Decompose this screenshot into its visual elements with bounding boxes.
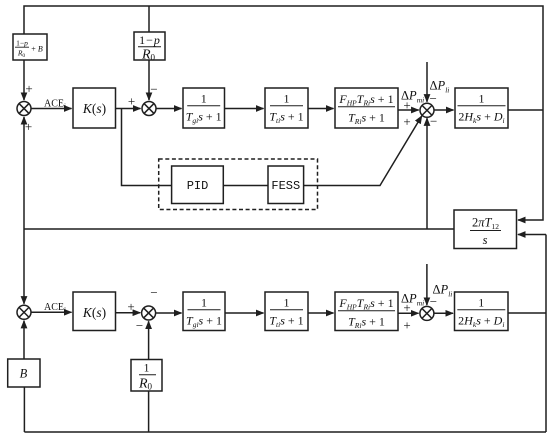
- svg-text:−: −: [136, 318, 143, 333]
- svg-text:+ B: + B: [31, 45, 43, 54]
- svg-text:s: s: [483, 233, 488, 247]
- svg-text:+: +: [127, 299, 134, 314]
- svg-text:PID: PID: [187, 179, 209, 193]
- svg-text:Ttis + 1: Ttis + 1: [269, 110, 303, 126]
- svg-text:FESS: FESS: [271, 179, 300, 193]
- svg-text:2Hks + Di: 2Hks + Di: [458, 314, 504, 330]
- svg-text:B: B: [20, 367, 28, 381]
- svg-text:ACEi: ACEi: [44, 302, 66, 314]
- svg-text:1: 1: [201, 296, 207, 310]
- svg-text:1: 1: [284, 296, 290, 310]
- svg-text:1: 1: [201, 92, 207, 106]
- svg-text:−: −: [150, 285, 157, 300]
- svg-text:1: 1: [479, 92, 485, 106]
- svg-text:+: +: [403, 318, 410, 333]
- svg-text:K(s): K(s): [82, 101, 106, 116]
- svg-text:−: −: [150, 81, 157, 96]
- svg-text:−: −: [430, 113, 437, 128]
- svg-text:TRis + 1: TRis + 1: [348, 315, 385, 331]
- svg-text:Tgis + 1: Tgis + 1: [186, 110, 222, 126]
- svg-text:+: +: [128, 94, 135, 109]
- svg-text:ACEi: ACEi: [44, 99, 66, 111]
- svg-text:+: +: [25, 119, 32, 134]
- svg-text:1: 1: [478, 296, 484, 310]
- svg-text:−: −: [430, 91, 437, 106]
- svg-text:1−p: 1−p: [16, 38, 28, 47]
- svg-text:Tgis + 1: Tgis + 1: [186, 314, 222, 330]
- svg-text:1: 1: [144, 363, 150, 375]
- svg-text:1 − p: 1 − p: [139, 33, 160, 47]
- svg-text:TRis + 1: TRis + 1: [348, 111, 385, 127]
- svg-text:1: 1: [284, 92, 290, 106]
- svg-text:+: +: [25, 81, 32, 96]
- svg-text:+: +: [403, 114, 410, 129]
- svg-text:K(s): K(s): [82, 305, 106, 320]
- svg-text:Ttis + 1: Ttis + 1: [269, 314, 303, 330]
- svg-text:2Hks + Di: 2Hks + Di: [458, 110, 504, 126]
